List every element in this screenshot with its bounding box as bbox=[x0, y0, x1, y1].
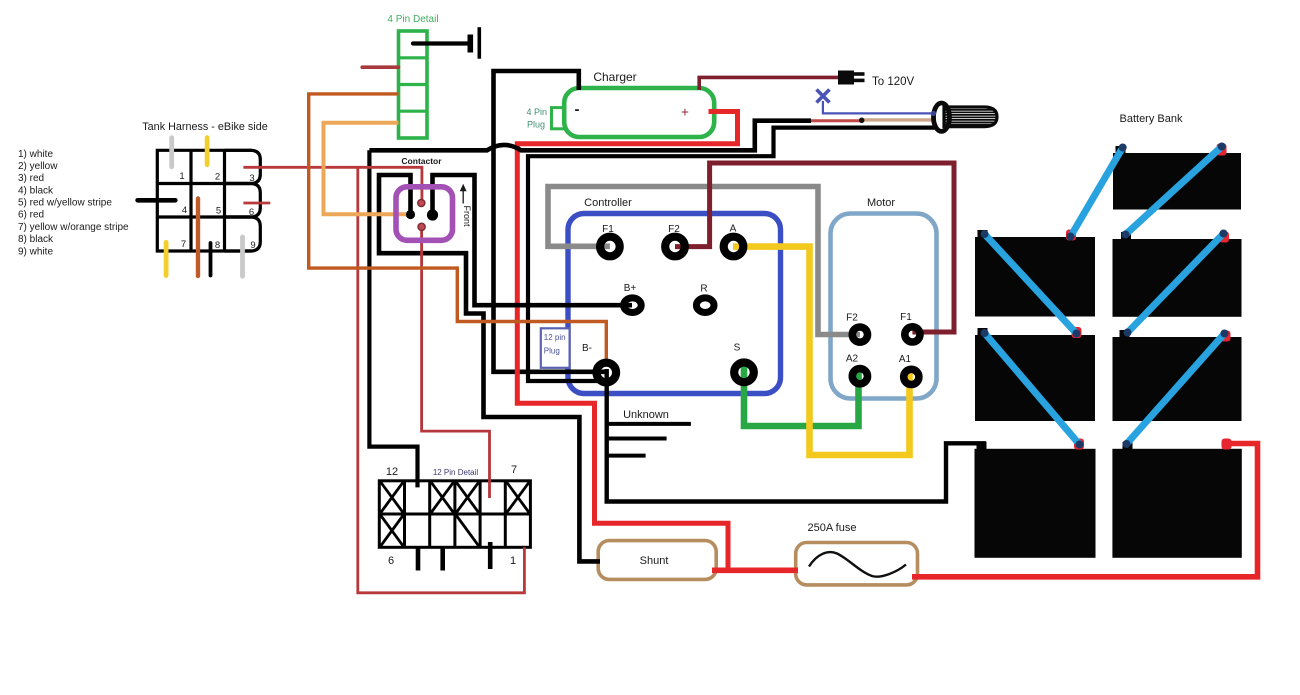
unknown stub 1 bbox=[607, 422, 691, 426]
12 pin detail grid bbox=[379, 481, 530, 571]
red wire shunt to fuse bbox=[712, 567, 798, 573]
black wire controller B+ via contactor right pin bbox=[433, 175, 633, 305]
crimson wire contactor coil to 12 pin detail pin8 bbox=[422, 229, 490, 498]
battery BT2 bbox=[975, 230, 1095, 317]
svg-text:F2: F2 bbox=[846, 313, 858, 324]
svg-text:5: 5 bbox=[216, 206, 221, 217]
svg-text:7: 7 bbox=[181, 239, 186, 250]
4pin pin1 black wire and ground bars bbox=[413, 27, 481, 59]
controller box U1 bbox=[568, 214, 781, 394]
terminal motor F2 bbox=[852, 327, 867, 342]
svg-text:Contactor: Contactor bbox=[401, 156, 442, 166]
black wire L2 B- to throttle bundle bbox=[528, 128, 935, 381]
svg-text:4: 4 bbox=[182, 205, 187, 216]
4 pin detail connector bbox=[399, 31, 428, 138]
black wire L1 contactor to throttle bundle (with hop) bbox=[369, 121, 811, 151]
black wire to 12 pin detail pin11 bbox=[369, 150, 417, 487]
tank wire pin8 black bbox=[209, 243, 213, 276]
orange wire 4pin pin3 to controller B- bbox=[309, 94, 607, 362]
svg-text:9: 9 bbox=[250, 240, 255, 251]
svg-text:A2: A2 bbox=[846, 354, 859, 365]
contactor coil pin bottom bbox=[418, 223, 425, 230]
motor box M1 bbox=[831, 214, 937, 399]
svg-text:3: 3 bbox=[249, 173, 254, 184]
maroon wire controller F2 to motor F1 bbox=[675, 163, 954, 332]
svg-text:A1: A1 bbox=[899, 354, 912, 365]
svg-text:A: A bbox=[730, 224, 737, 235]
tank cell numbers bbox=[179, 171, 255, 251]
svg-text:F1: F1 bbox=[602, 224, 614, 235]
battery cable BT3-BT5 bbox=[1124, 230, 1228, 337]
4pin pin2 red wire bbox=[362, 65, 398, 69]
tank wire pin9 white bbox=[240, 237, 245, 276]
svg-text:12: 12 bbox=[386, 466, 398, 478]
svg-text:Shunt: Shunt bbox=[640, 555, 669, 567]
maroon wire charger to 120V plug bbox=[699, 77, 838, 90]
svg-text:Motor: Motor bbox=[867, 197, 895, 209]
fuse box F1 250A bbox=[796, 543, 918, 585]
svg-text:Charger: Charger bbox=[593, 70, 636, 84]
battery BT6 bbox=[975, 439, 1096, 558]
shunt box bbox=[598, 541, 716, 580]
svg-text:Unknown: Unknown bbox=[623, 409, 669, 421]
tank wire pin4 black bbox=[138, 198, 176, 203]
svg-text:Battery Bank: Battery Bank bbox=[1120, 113, 1183, 125]
red wire tank harness pin3 to contactor coil bbox=[243, 167, 422, 200]
red wire fuse to battery BT7 bbox=[912, 444, 1258, 577]
tank wire pin7 yellow bbox=[164, 242, 169, 275]
svg-text:F1: F1 bbox=[900, 312, 912, 323]
12 pin detail labels bbox=[386, 464, 517, 567]
svg-text:S: S bbox=[734, 343, 741, 354]
battery cable BT4-BT6 bbox=[981, 329, 1084, 449]
terminal controller F2 bbox=[665, 237, 685, 257]
battery cable BT2-BT4 bbox=[981, 230, 1081, 338]
charger plug tab bbox=[552, 108, 567, 129]
120V plug icon bbox=[838, 71, 865, 85]
purple contactor body bbox=[396, 187, 453, 241]
svg-text:2: 2 bbox=[215, 172, 220, 183]
svg-text:F2: F2 bbox=[668, 224, 680, 235]
unknown stub 3 bbox=[607, 454, 646, 458]
svg-text:250A fuse: 250A fuse bbox=[808, 522, 857, 534]
battery BT4 bbox=[975, 327, 1095, 421]
svg-text:1: 1 bbox=[510, 555, 516, 567]
black unknown trunk and battery negative wire bbox=[607, 369, 984, 502]
contactor left pin bbox=[406, 210, 415, 219]
red wire junction to 12 pin detail pin1 bbox=[358, 167, 525, 593]
contactor coil pin top bbox=[418, 199, 425, 206]
svg-text:Tank Harness - eBike side: Tank Harness - eBike side bbox=[142, 121, 267, 133]
svg-text:6: 6 bbox=[388, 555, 394, 567]
contactor right pin bbox=[427, 209, 438, 220]
yellow wire controller A to motor A1 bbox=[733, 247, 910, 455]
svg-text:8: 8 bbox=[215, 240, 220, 251]
svg-text:4 Pin Detail: 4 Pin Detail bbox=[387, 14, 438, 25]
tank wire pin1 white bbox=[169, 138, 174, 167]
battery BT3 bbox=[1113, 232, 1242, 317]
tank wire pin2 yellow bbox=[205, 138, 210, 165]
black wire contactor left pin to shunt bbox=[379, 175, 600, 561]
throttle grip cylinder bbox=[931, 103, 997, 131]
charger box bbox=[564, 88, 714, 137]
motor terminal labels bbox=[846, 312, 912, 365]
terminal motor A1 bbox=[904, 369, 919, 384]
terminal controller S bbox=[734, 363, 754, 383]
svg-text:To 120V: To 120V bbox=[872, 76, 915, 88]
tank harness grid bbox=[157, 150, 260, 251]
svg-text:-: - bbox=[575, 101, 580, 118]
red wire charger plus to shunt junction bbox=[517, 112, 737, 571]
svg-text:6: 6 bbox=[249, 207, 254, 218]
svg-text:R: R bbox=[700, 284, 707, 295]
light orange wire 4pin pin4 to contactor left pin bbox=[324, 123, 407, 215]
terminal controller A bbox=[724, 237, 744, 257]
unknown stub 2 bbox=[607, 437, 667, 441]
svg-text:1: 1 bbox=[179, 171, 184, 182]
battery BT1 bbox=[1113, 144, 1241, 210]
gray wire controller F1 to motor F2 bbox=[548, 187, 860, 335]
svg-text:Front: Front bbox=[462, 206, 472, 228]
tank wire pin5 orange bbox=[196, 199, 200, 277]
svg-text:B-: B- bbox=[582, 343, 592, 354]
black wire charger minus to controller B- bbox=[494, 71, 607, 372]
label front arrow bbox=[460, 184, 472, 227]
terminal motor A2 bbox=[852, 369, 867, 384]
battery BT7 bbox=[1112, 439, 1241, 558]
terminal controller B- bbox=[597, 363, 617, 383]
svg-text:12 Pin Detail: 12 Pin Detail bbox=[433, 468, 479, 477]
throttle junction dot bbox=[859, 118, 865, 124]
throttle tan segment bbox=[862, 118, 935, 121]
12 pin plug label box bbox=[541, 328, 570, 368]
terminal motor F1 bbox=[905, 327, 920, 342]
red wire tank harness pin6 stub bbox=[243, 202, 270, 205]
battery cable BT1-BT2 bbox=[1067, 144, 1127, 241]
controller terminal labels bbox=[582, 224, 741, 355]
terminal controller R bbox=[696, 298, 714, 313]
svg-text:Controller: Controller bbox=[584, 197, 632, 209]
green wire controller S to motor A2 bbox=[744, 366, 859, 426]
battery cable BT5-BT7 bbox=[1123, 330, 1229, 449]
terminal controller F1 bbox=[600, 237, 620, 257]
battery cable BT1-BT3 bbox=[1122, 143, 1226, 239]
svg-text:+: + bbox=[681, 105, 689, 120]
svg-text:B+: B+ bbox=[624, 283, 637, 294]
battery BT5 bbox=[1113, 330, 1242, 421]
blue antenna X symbol bbox=[817, 90, 937, 114]
throttle red segment bbox=[811, 119, 862, 122]
terminal controller B+ bbox=[624, 298, 642, 313]
svg-text:7: 7 bbox=[511, 464, 517, 476]
